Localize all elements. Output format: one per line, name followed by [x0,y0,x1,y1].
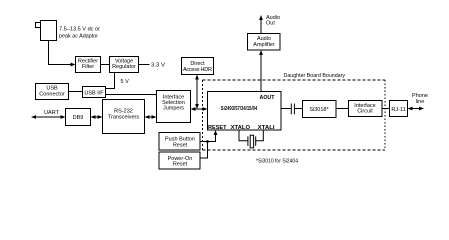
svg-text:peak ac Adaptor: peak ac Adaptor [59,33,98,39]
svg-text:Jumpers: Jumpers [163,106,184,112]
svg-text:USB I/F: USB I/F [84,90,104,96]
svg-text:Out: Out [266,21,275,27]
svg-text:line: line [416,99,425,105]
svg-text:Access HDR: Access HDR [183,67,212,73]
svg-text:7.5–13.5 V dc or: 7.5–13.5 V dc or [59,27,100,33]
svg-text:Daughter Board Boundary: Daughter Board Boundary [284,73,346,79]
svg-text:3.3 V: 3.3 V [151,63,165,69]
svg-text:RJ-11: RJ-11 [391,107,405,113]
svg-text:RESET: RESET [208,125,227,131]
svg-text:Transceivers: Transceivers [108,114,140,120]
svg-text:XTALI: XTALI [258,125,276,131]
svg-text:Amplifier: Amplifier [253,42,275,48]
svg-text:Regulator: Regulator [112,64,136,70]
svg-text:XTALO: XTALO [231,125,251,131]
svg-text:AOUT: AOUT [260,95,276,101]
svg-text:Reset: Reset [173,162,188,168]
svg-text:DB9: DB9 [73,115,84,121]
svg-text:Si3018*: Si3018* [309,107,329,113]
svg-text:5 V: 5 V [121,79,130,85]
svg-text:Filter: Filter [82,64,94,70]
svg-text:Si2493/57/34/15/04: Si2493/57/34/15/04 [221,106,258,112]
svg-text:*Si3010 for Si2404: *Si3010 for Si2404 [256,158,298,164]
svg-text:Connector: Connector [39,91,65,97]
svg-text:UART: UART [44,110,60,116]
svg-text:Reset: Reset [173,142,188,148]
svg-text:Circuit: Circuit [357,109,373,115]
